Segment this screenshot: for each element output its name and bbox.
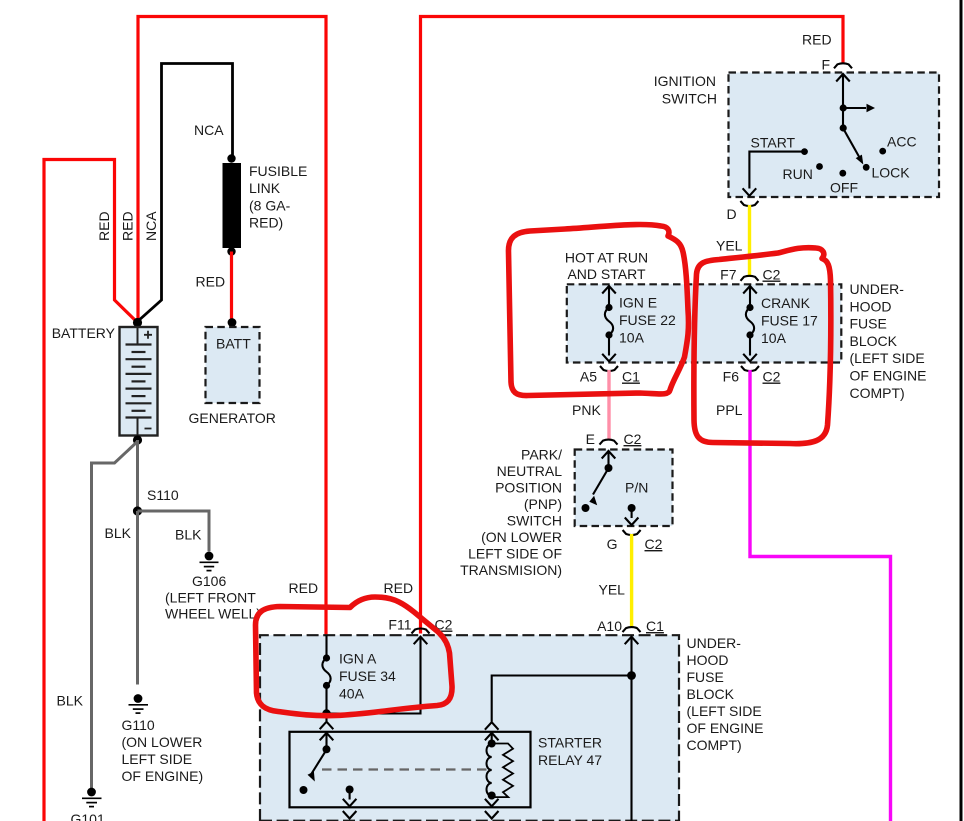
svg-text:IGN E: IGN E (619, 295, 657, 311)
svg-text:F7: F7 (720, 267, 737, 283)
connector E arc (600, 440, 618, 445)
svg-text:(ON LOWER: (ON LOWER (481, 529, 562, 545)
starter relay: contact pivot node (323, 745, 331, 753)
starter relay: contact feed arrow (320, 733, 334, 741)
svg-text:FUSE: FUSE (687, 669, 724, 685)
svg-text:SWITCH: SWITCH (507, 513, 562, 529)
ground G110 (129, 694, 149, 713)
svg-text:G: G (607, 536, 618, 552)
svg-text:RED): RED) (249, 215, 283, 231)
svg-text:RED: RED (96, 211, 112, 241)
starter relay: coil top node (488, 740, 496, 748)
wire: junction down to starter relay (325, 714, 327, 722)
svg-text:FUSE: FUSE (850, 316, 887, 332)
connector F arc (834, 63, 852, 68)
fuse CRANK entry arrow (743, 286, 757, 294)
underhood fuse block box 1 (567, 284, 842, 362)
wire gray: S110 to G110 (136, 511, 139, 685)
svg-text:WHEEL WELL): WHEEL WELL) (165, 606, 261, 622)
svg-text:RED: RED (120, 211, 136, 241)
PNP switch: entry arrow from E (602, 451, 616, 459)
svg-text:TRANSMISION): TRANSMISION) (460, 562, 562, 578)
svg-text:LINK: LINK (249, 180, 281, 196)
svg-text:PPL: PPL (716, 402, 743, 418)
svg-text:RED: RED (196, 274, 226, 290)
svg-text:E: E (586, 431, 595, 447)
connector G arc (623, 530, 641, 535)
fuse IGN E entry arrow (602, 286, 616, 294)
wire red: battery feed loop top (138, 17, 326, 635)
svg-text:S110: S110 (147, 487, 179, 503)
starter relay: coil entry arrow (485, 733, 499, 741)
svg-text:(LEFT SIDE: (LEFT SIDE (850, 350, 925, 366)
svg-text:(ON LOWER: (ON LOWER (122, 734, 203, 750)
PNP switch: moving contact arm (593, 469, 608, 495)
node: coil feed junction on A10 line (627, 671, 636, 680)
annotation loop around IGN A fuse (256, 597, 453, 716)
ignition switch: entry arrow from F (836, 74, 850, 82)
svg-text:A10: A10 (597, 618, 622, 634)
svg-text:OF ENGINE): OF ENGINE) (122, 768, 204, 784)
svg-text:IGN A: IGN A (339, 651, 377, 667)
ignition switch: feed arrow right (843, 107, 866, 109)
svg-text:(LEFT FRONT: (LEFT FRONT (165, 590, 256, 606)
svg-text:10A: 10A (619, 329, 645, 345)
wire gray: battery negative down to S110 (136, 440, 139, 511)
svg-text:UNDER-: UNDER- (850, 281, 905, 297)
wire: A10 entry into box 2 (625, 637, 639, 645)
ignition switch: rotor arm toward LOCK (844, 129, 860, 158)
starter relay: coil ground arrow (491, 796, 493, 800)
page border right (960, 0, 963, 821)
wire red: left branch to bottom of page (44, 160, 138, 821)
fuse IGN E FUSE 22 10A (605, 304, 612, 311)
svg-text:STARTER: STARTER (538, 735, 602, 751)
ground G106 (200, 552, 219, 571)
svg-text:F11: F11 (388, 617, 411, 633)
svg-text:F6: F6 (723, 369, 740, 385)
svg-text:POSITION: POSITION (495, 480, 562, 496)
fusible link F: element bar (223, 163, 242, 248)
ground G101 (82, 788, 102, 807)
svg-text:LEFT SIDE: LEFT SIDE (122, 751, 193, 767)
svg-text:NCA: NCA (143, 211, 159, 241)
svg-text:IGNITION: IGNITION (654, 73, 716, 89)
svg-text:BLK: BLK (105, 525, 132, 541)
starter relay: coil terminal chevron below box (485, 811, 499, 819)
battery node - (133, 435, 142, 444)
wire red: right loop to ignition switch F (421, 17, 844, 634)
svg-text:NCA: NCA (194, 122, 224, 138)
svg-text:OF ENGINE: OF ENGINE (687, 720, 764, 736)
svg-text:RED: RED (384, 580, 414, 596)
label PARK/NEUTRAL POSITION (PNP) SWITCH (ON LOWER LEFT SIDE OF TRANSMISION) (460, 447, 562, 579)
ignition switch box (729, 73, 940, 198)
svg-text:(LEFT SIDE: (LEFT SIDE (687, 703, 762, 719)
svg-text:RUN: RUN (783, 166, 813, 182)
svg-text:HOT AT RUN: HOT AT RUN (565, 250, 648, 266)
svg-text:RED: RED (802, 32, 832, 48)
battery body (120, 327, 158, 436)
wire red: fusible link to generator BATT (230, 252, 233, 323)
svg-text:FUSE 17: FUSE 17 (761, 312, 818, 328)
wire YEL: D to F7 (748, 205, 751, 277)
wire gray: branch to G101 (92, 442, 138, 791)
connector A5 arc (600, 366, 618, 371)
underhood fuse block box 2 fill (260, 635, 679, 821)
svg-text:GENERATOR: GENERATOR (189, 410, 276, 426)
svg-text:(PNP): (PNP) (524, 496, 562, 512)
fuse IGN A FUSE 34 40A (325, 635, 327, 658)
svg-text:40A: 40A (339, 685, 365, 701)
connector A10 arc (623, 627, 641, 632)
fusible link F: node top (227, 154, 235, 162)
annotation loop around HOT AT RUN / IGN E fuse (508, 224, 688, 395)
svg-text:UNDER-: UNDER- (687, 635, 742, 651)
starter relay: moving contact arm (311, 751, 326, 775)
fuse CRANK FUSE 17 10A (746, 304, 753, 311)
wire PPL: F6 down right to bottom (750, 370, 891, 821)
starter relay: contact node (300, 786, 308, 794)
svg-text:OFF: OFF (830, 180, 858, 196)
svg-text:ACC: ACC (887, 134, 917, 150)
svg-text:BLOCK: BLOCK (850, 333, 898, 349)
svg-text:YEL: YEL (716, 238, 743, 254)
wire black NCA (138, 64, 233, 322)
svg-text:PNK: PNK (572, 402, 601, 418)
PNP switch: pivot node (605, 464, 613, 472)
PNP switch: P/N node (628, 504, 636, 512)
connector D arc (740, 201, 758, 206)
svg-text:C2: C2 (624, 431, 642, 447)
node: fuse output junction (322, 709, 330, 717)
svg-text:RELAY 47: RELAY 47 (538, 752, 602, 768)
svg-text:FUSE 34: FUSE 34 (339, 668, 396, 684)
ignition switch: contact OFF (839, 170, 846, 177)
svg-text:NEUTRAL: NEUTRAL (497, 463, 563, 479)
svg-text:BLOCK: BLOCK (687, 686, 735, 702)
wire: coil feed from A10 line (492, 676, 632, 722)
node: generator BATT terminal (228, 318, 237, 327)
ignition switch: node B+ (840, 104, 847, 111)
svg-text:COMPT): COMPT) (687, 737, 742, 753)
svg-text:(8 GA-: (8 GA- (249, 197, 291, 213)
svg-text:G110: G110 (122, 717, 155, 733)
svg-text:D: D (727, 206, 737, 222)
PNP switch: contact node (582, 504, 590, 512)
svg-text:BLK: BLK (175, 527, 202, 543)
wire gray: S110 to G106 (138, 511, 210, 552)
svg-text:G101: G101 (71, 811, 105, 821)
svg-text:HOOD: HOOD (850, 298, 892, 314)
ignition switch: contact RUN (816, 163, 823, 170)
svg-text:F: F (822, 57, 831, 73)
starter relay: coil resistor zigzag (492, 744, 513, 798)
label UNDER-HOOD FUSE BLOCK (LEFT SIDE OF ENGINE COMPT) box2 (687, 635, 764, 753)
generator box (BATT) (206, 327, 260, 403)
svg-text:PARK/: PARK/ (521, 447, 562, 463)
svg-text:FUSIBLE: FUSIBLE (249, 163, 307, 179)
connector F11 arc (412, 629, 430, 634)
annotation loop around CRANK fuse (694, 248, 831, 444)
ignition switch: wire START to D exit (749, 152, 804, 189)
PNP switch: exit arrow to G (631, 508, 633, 518)
battery node + (133, 318, 142, 327)
svg-text:C2: C2 (763, 369, 781, 385)
svg-text:FUSE 22: FUSE 22 (619, 312, 676, 328)
svg-text:SWITCH: SWITCH (662, 91, 717, 107)
svg-text:LOCK: LOCK (872, 165, 911, 181)
svg-text:AND START: AND START (567, 266, 645, 282)
starter relay 47 box (290, 732, 531, 808)
PNP switch box (575, 450, 673, 527)
svg-text:BATTERY: BATTERY (52, 325, 116, 341)
ignition switch: rotor pivot node (840, 124, 847, 131)
node S110 (133, 506, 142, 515)
svg-text:RED: RED (289, 580, 319, 596)
connector F7 arc (741, 276, 759, 281)
svg-text:C1: C1 (646, 618, 664, 634)
svg-text:C2: C2 (645, 536, 663, 552)
svg-text:COMPT): COMPT) (850, 385, 905, 401)
starter relay: output pin node (346, 786, 354, 794)
svg-text:G106: G106 (192, 573, 226, 589)
svg-text:OF ENGINE: OF ENGINE (850, 368, 927, 384)
ignition switch: contact ACC (879, 148, 886, 155)
fusible link F: node bottom (227, 247, 235, 255)
svg-text:LEFT SIDE OF: LEFT SIDE OF (468, 546, 562, 562)
svg-text:YEL: YEL (599, 582, 626, 598)
svg-text:BLK: BLK (57, 693, 84, 709)
svg-text:P/N: P/N (625, 480, 648, 496)
wire: junction to F11 riser (327, 637, 421, 714)
underhood fuse block box 2 dashed border (260, 635, 679, 821)
svg-text:C2: C2 (763, 267, 781, 283)
wire PNK: A5 to E (607, 370, 610, 440)
svg-text:HOOD: HOOD (687, 652, 729, 668)
svg-text:BATT: BATT (216, 336, 251, 352)
wire YEL: G to A10 (630, 534, 633, 628)
starter relay: output pin arrow (349, 790, 351, 800)
label UNDER-HOOD FUSE BLOCK (LEFT SIDE OF ENGINE COMPT) box1 (850, 281, 927, 401)
svg-text:A5: A5 (580, 369, 597, 385)
connector F6 arc (741, 366, 759, 371)
ignition switch: contact START (801, 148, 808, 155)
starter relay: coil bottom node (488, 792, 496, 800)
starter relay: dashed actuator link (322, 768, 487, 770)
ignition switch: contact LOCK (863, 164, 870, 171)
starter relay: coil winding (487, 744, 492, 796)
svg-text:START: START (751, 135, 796, 151)
starter relay: output terminal chevron below box (343, 811, 357, 819)
svg-text:CRANK: CRANK (761, 295, 811, 311)
svg-text:10A: 10A (761, 330, 787, 346)
svg-text:C1: C1 (622, 369, 640, 385)
